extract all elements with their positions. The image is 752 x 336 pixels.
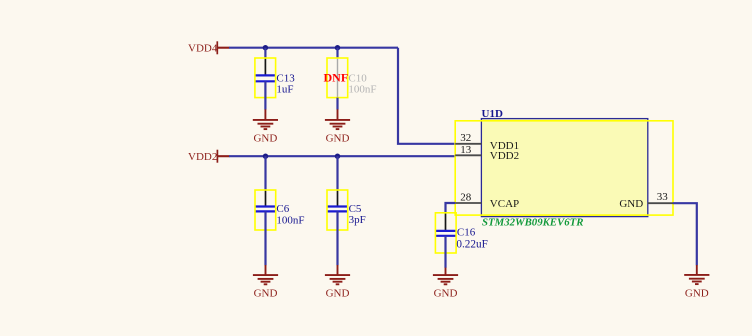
- svg-text:100nF: 100nF: [276, 215, 304, 227]
- ground GND under C6: [253, 265, 278, 300]
- capacitor C6: [255, 190, 305, 230]
- svg-text:33: 33: [657, 191, 669, 203]
- selection box U1D: [455, 121, 673, 215]
- svg-text:U1D: U1D: [482, 108, 503, 120]
- svg-text:VDD4: VDD4: [188, 42, 218, 54]
- svg-text:100nF: 100nF: [348, 84, 376, 96]
- capacitor C10 (DNF, not fitted): [324, 58, 377, 98]
- capacitor C5: [327, 190, 366, 230]
- svg-text:0.22uF: 0.22uF: [456, 238, 487, 250]
- svg-text:VDD2: VDD2: [490, 150, 519, 162]
- svg-text:VDD2: VDD2: [188, 151, 217, 163]
- svg-text:32: 32: [460, 132, 471, 144]
- power port VDD4: [188, 41, 230, 54]
- wire C6 top: [264, 156, 266, 190]
- wire C10 top: [336, 48, 338, 59]
- node junction VDD2/C5: [335, 154, 340, 159]
- pin 32 VDD1: [455, 132, 519, 152]
- svg-text:GND: GND: [326, 288, 350, 300]
- ground GND under C5: [325, 265, 350, 300]
- wire C5 top: [336, 156, 338, 190]
- op-amp/IC body U1D: [481, 108, 647, 217]
- node junction VDD4/C10: [335, 45, 340, 50]
- ground GND under C10: [325, 109, 350, 144]
- pin 28 VCAP: [455, 191, 519, 210]
- power port VDD2: [188, 150, 230, 163]
- ground GND at pin 33: [684, 265, 709, 299]
- capacitor C13: [255, 58, 295, 98]
- node junction VDD2/C6: [263, 154, 268, 159]
- svg-text:GND: GND: [253, 133, 277, 145]
- svg-text:VCAP: VCAP: [490, 198, 519, 210]
- pin 33 GND: [619, 191, 673, 210]
- svg-text:13: 13: [460, 144, 472, 156]
- svg-text:C13: C13: [276, 72, 295, 84]
- wire C13 top: [264, 48, 266, 59]
- wire C5 bottom: [336, 211, 338, 265]
- wire C10 bottom: [336, 98, 338, 110]
- svg-text:GND: GND: [434, 288, 458, 300]
- pin 13 VDD2: [455, 144, 519, 162]
- capacitor C16: [435, 213, 487, 253]
- wire VDD2 rail to pin 13: [229, 155, 455, 157]
- wire C13 bottom: [264, 81, 266, 109]
- svg-text:C6: C6: [276, 203, 289, 215]
- ground GND under C13: [253, 109, 278, 144]
- wire C6 bottom: [264, 211, 266, 265]
- svg-text:GND: GND: [326, 133, 350, 145]
- node junction VDD4/C13: [263, 45, 268, 50]
- svg-text:1uF: 1uF: [276, 84, 293, 96]
- svg-text:28: 28: [460, 191, 472, 203]
- svg-text:GND: GND: [685, 287, 709, 299]
- svg-text:C10: C10: [348, 72, 367, 84]
- svg-text:STM32WB09KEV6TR: STM32WB09KEV6TR: [482, 216, 583, 228]
- wire VDD4 rail: [229, 47, 398, 49]
- svg-text:GND: GND: [619, 198, 643, 210]
- svg-text:3pF: 3pF: [349, 214, 366, 226]
- ground GND under C16: [433, 268, 458, 300]
- wire VDD4 to pin 32: [398, 48, 455, 144]
- wire pin 33 to ground: [673, 203, 697, 265]
- svg-text:C16: C16: [457, 227, 476, 239]
- svg-text:GND: GND: [254, 288, 278, 300]
- wire pin 28 to C16: [446, 203, 456, 213]
- wire C16 bottom: [444, 236, 446, 268]
- svg-text:DNF: DNF: [324, 71, 349, 85]
